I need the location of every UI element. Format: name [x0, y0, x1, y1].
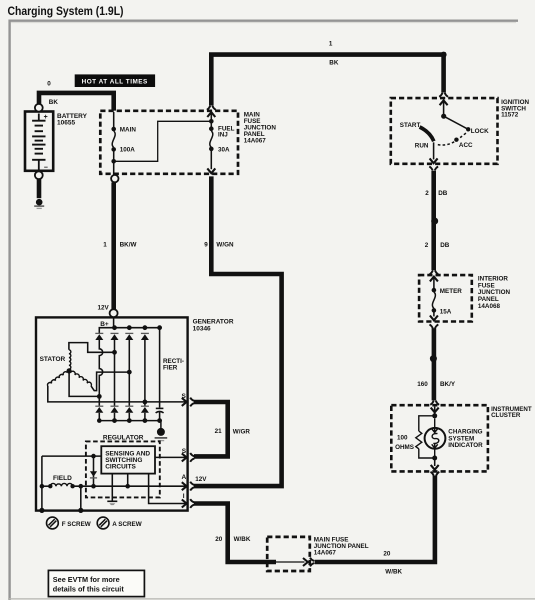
svg-text:A SCREW: A SCREW — [112, 521, 142, 528]
connector cup interior panel entry — [430, 270, 433, 274]
svg-text:15A: 15A — [440, 308, 452, 315]
main fuse junction panel 14A067 box — [100, 111, 238, 174]
sensing A pin — [127, 474, 129, 487]
hot at all times banner — [75, 74, 155, 87]
field junctions — [40, 484, 45, 489]
rectifier ground — [160, 421, 161, 429]
wire battery positive 0 BK — [39, 93, 114, 111]
connector cup bottom panel exit — [310, 558, 314, 561]
svg-text:INDICATOR: INDICATOR — [448, 442, 483, 449]
internal wire bottom panel — [276, 561, 305, 563]
svg-text:11572: 11572 — [501, 112, 519, 119]
svg-text:W/GR: W/GR — [233, 428, 251, 435]
regulator diode — [93, 456, 95, 486]
svg-text:RUN: RUN — [415, 143, 429, 150]
fuse FUEL INJ 30A — [207, 112, 215, 117]
rectifier column verticals — [99, 340, 102, 406]
svg-text:START: START — [400, 122, 421, 129]
connector cup cluster entry — [430, 401, 433, 405]
fuse MAIN 100A — [113, 112, 115, 131]
capacitor column — [159, 328, 161, 408]
interior fuse junction panel 14A068 box — [419, 275, 472, 321]
connector cup ignition entry — [439, 93, 442, 97]
svg-text:20: 20 — [215, 536, 223, 543]
regulator box — [86, 441, 160, 497]
svg-text:W/GN: W/GN — [216, 242, 234, 249]
main fuse junction panel 14A067 bottom box — [267, 537, 310, 571]
svg-text:1: 1 — [103, 242, 107, 249]
rectifier diodes upper row — [95, 332, 103, 334]
svg-text:METER: METER — [440, 288, 462, 295]
contact ACC — [454, 138, 458, 142]
svg-text:100: 100 — [397, 434, 408, 441]
svg-text:S: S — [182, 448, 187, 455]
svg-text:LOCK: LOCK — [471, 128, 489, 135]
top bus junctions — [112, 325, 117, 330]
ignition output to RUN/START — [433, 142, 435, 159]
switch wiper arc START-RUN — [420, 127, 434, 141]
svg-text:W/BK: W/BK — [385, 568, 402, 575]
svg-text:160: 160 — [417, 381, 428, 388]
rectifier bottom bus — [99, 420, 159, 422]
battery 10655 — [25, 112, 53, 171]
connector ring below panel — [111, 175, 118, 182]
svg-text:2: 2 — [425, 242, 429, 249]
connector cup fuel inj entry — [207, 106, 210, 110]
wire 9 W/GN fuel inj fuse to generator A terminal — [194, 176, 282, 486]
splice on 160 BK/Y — [430, 355, 437, 362]
terminal A — [182, 482, 187, 490]
stator Y-center — [67, 368, 72, 373]
cluster top junction — [432, 413, 437, 418]
svg-text:14A067: 14A067 — [314, 550, 337, 557]
svg-text:30A: 30A — [218, 146, 230, 153]
capacitor — [156, 407, 164, 409]
case junctions — [39, 508, 44, 513]
stator winding phase A coil — [69, 350, 71, 369]
F screw — [47, 517, 59, 529]
ground battery — [36, 199, 43, 206]
charging system indicator lamp — [425, 428, 446, 449]
see EVTM note box — [48, 570, 144, 596]
svg-text:12V: 12V — [98, 305, 110, 312]
stator phase A junction — [112, 350, 117, 355]
rectifier diodes lower row — [95, 405, 103, 407]
stator winding phase C coil — [48, 372, 68, 386]
svg-text:100A: 100A — [120, 146, 136, 153]
svg-text:1: 1 — [329, 41, 333, 48]
svg-text:10655: 10655 — [57, 119, 75, 126]
A screw — [97, 517, 109, 529]
connector cup interior panel exit — [430, 324, 433, 328]
svg-text:INJ: INJ — [218, 132, 228, 139]
svg-text:MAIN: MAIN — [120, 127, 137, 134]
field winding line A — [42, 485, 50, 487]
generator left internal vertical — [41, 456, 43, 511]
svg-text:W/BK: W/BK — [234, 536, 251, 543]
fuse METER 15A — [433, 277, 435, 292]
svg-text:14A067: 14A067 — [244, 137, 267, 144]
svg-text:DB: DB — [440, 242, 450, 249]
wire 21 W/GR jumper S to S — [194, 402, 228, 456]
svg-text:A: A — [182, 474, 187, 481]
stator neutral tap to diode column 1 — [69, 371, 99, 397]
svg-text:CLUSTER: CLUSTER — [491, 412, 521, 419]
rectifier top bus — [99, 328, 159, 334]
connector cup ignition exit — [429, 166, 432, 170]
svg-text:BK/W: BK/W — [120, 242, 137, 249]
svg-text:2: 2 — [425, 190, 429, 197]
terminal S upper — [182, 398, 187, 406]
svg-text:F SCREW: F SCREW — [62, 521, 91, 528]
svg-text:DB: DB — [438, 190, 448, 197]
svg-text:See EVTM for more: See EVTM for more — [53, 575, 120, 584]
svg-text:details of this circuit: details of this circuit — [53, 585, 125, 594]
svg-text:−: − — [44, 164, 48, 171]
wire sensing input left — [42, 455, 101, 457]
svg-text:12V: 12V — [195, 476, 207, 483]
ring terminal 12V at B+ — [110, 309, 118, 317]
svg-text:CIRCUITS: CIRCUITS — [105, 464, 136, 471]
svg-text:0: 0 — [47, 80, 51, 87]
wire 160 BK/Y interior fuse panel to instrument cluster — [432, 328, 437, 400]
svg-text:OHMS: OHMS — [395, 444, 414, 451]
ignition switch 11572 box — [391, 98, 498, 164]
wire 20 W/BK generator I terminal to main fuse junction panel — [194, 504, 276, 563]
instrument cluster box — [391, 405, 488, 471]
svg-text:BK/Y: BK/Y — [440, 381, 456, 388]
svg-text:FIER: FIER — [163, 365, 178, 372]
svg-text:14A068: 14A068 — [478, 303, 501, 310]
dashed detent arc RUN-ACC-LOCK — [438, 132, 468, 145]
sensing ground pin — [111, 474, 113, 501]
sensing and switching circuits box — [101, 446, 155, 473]
wire 1 BK top feed to ignition — [211, 55, 443, 106]
svg-text:STATOR: STATOR — [40, 356, 66, 363]
svg-text:BK: BK — [49, 99, 59, 106]
junction top wire corner — [441, 52, 447, 58]
wire 2 DB ignition to interior fuse panel — [431, 171, 436, 270]
svg-text:S: S — [182, 393, 187, 400]
terminal I — [182, 500, 187, 508]
terminal S lower — [155, 456, 186, 458]
cluster bottom junction — [432, 456, 437, 461]
contact LOCK — [444, 116, 469, 129]
internal bus main to fuel inj — [114, 121, 212, 161]
wire 20 W/BK cluster to main fuse junction panel — [315, 476, 435, 562]
splice S206 on 2 DB — [431, 218, 438, 225]
svg-text:20: 20 — [383, 551, 391, 558]
sensing I pin — [149, 474, 186, 504]
svg-text:REGULATOR: REGULATOR — [103, 435, 144, 442]
svg-text:ACC: ACC — [459, 142, 473, 149]
stator phase C / S line to S terminal — [48, 386, 186, 402]
svg-text:21: 21 — [215, 428, 223, 435]
svg-text:9: 9 — [204, 242, 208, 249]
resistor 100 ohms branch — [419, 416, 435, 431]
ignition pivot — [441, 114, 446, 119]
wire battery negative to ground — [37, 179, 42, 198]
vertical to case left — [80, 486, 82, 510]
wire 1 BK/W main fuse to generator — [111, 182, 116, 309]
svg-text:10346: 10346 — [193, 325, 211, 332]
stator phase B junction — [127, 370, 132, 375]
svg-text:HOT AT ALL TIMES: HOT AT ALL TIMES — [82, 79, 148, 86]
connector cup cluster exit — [431, 472, 434, 476]
svg-text:B+: B+ — [100, 321, 109, 328]
svg-text:I: I — [183, 493, 185, 500]
stator winding phase B coil — [71, 371, 92, 386]
svg-text:Charging System (1.9L): Charging System (1.9L) — [8, 4, 124, 18]
generator 10346 box — [36, 317, 188, 510]
svg-text:BK: BK — [329, 60, 339, 67]
svg-text:FIELD: FIELD — [53, 475, 72, 482]
